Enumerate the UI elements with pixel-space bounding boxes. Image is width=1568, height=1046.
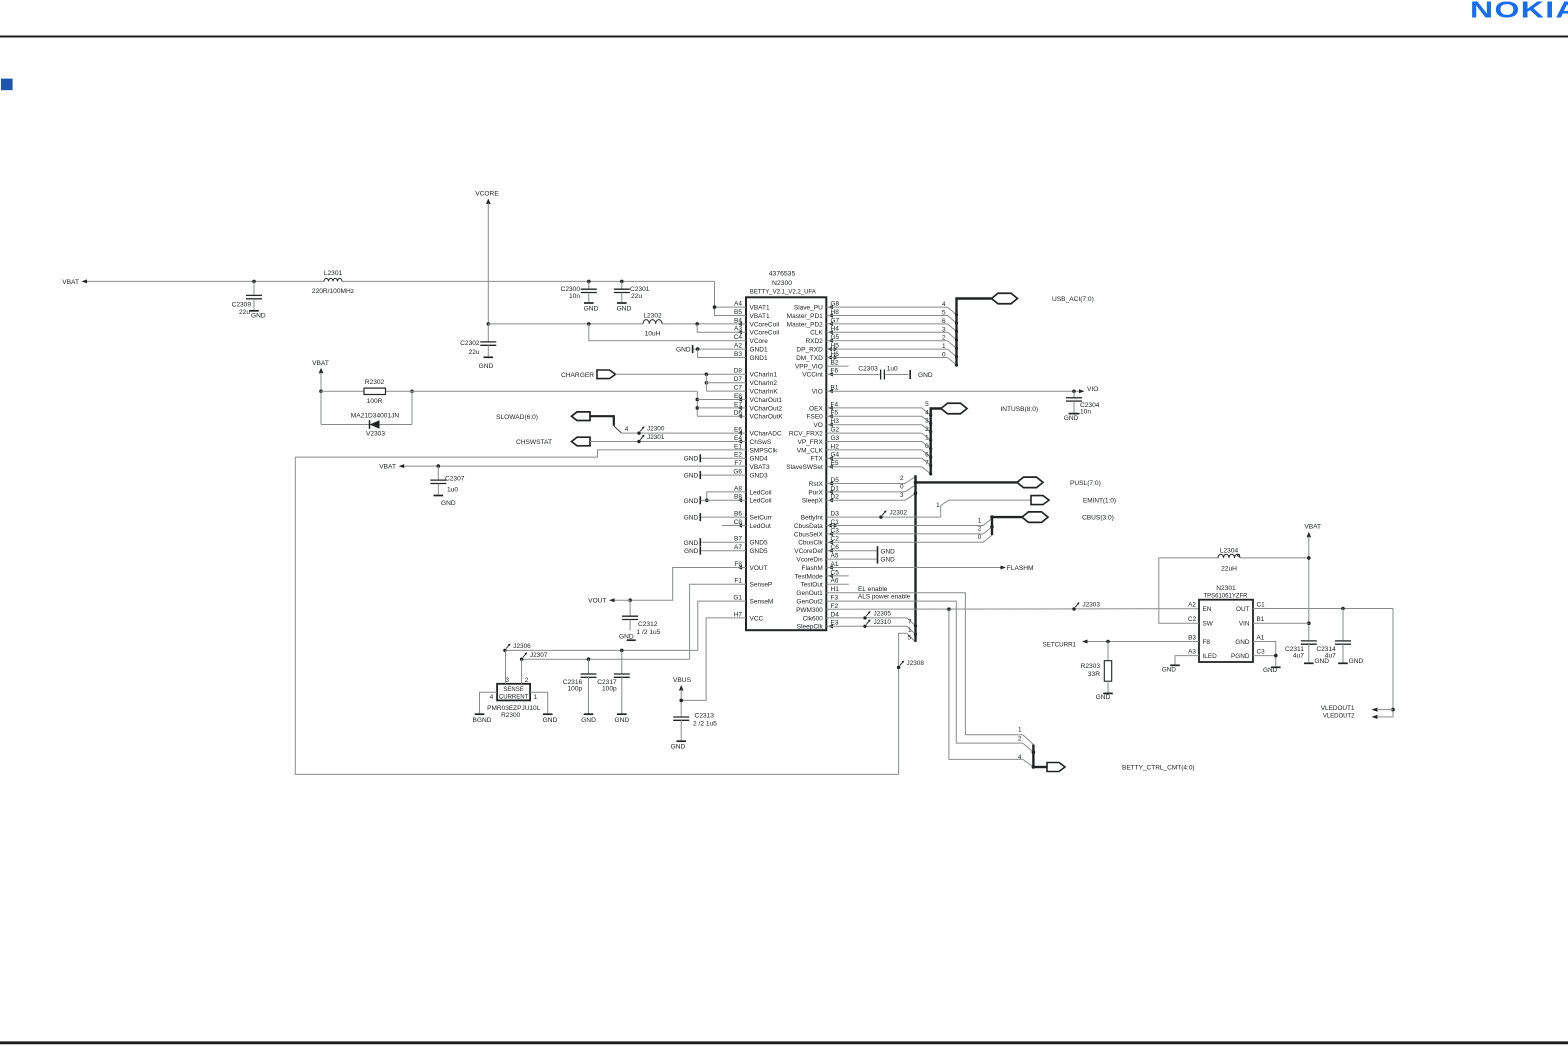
wire SW to L2304 <box>1159 558 1199 623</box>
svg-text:USB_ACI(7:0): USB_ACI(7:0) <box>1052 296 1094 303</box>
svg-text:GND: GND <box>684 515 699 522</box>
svg-text:GND: GND <box>1349 658 1364 665</box>
wire SenseM to J2306 line <box>698 601 746 650</box>
svg-text:VCharADC: VCharADC <box>750 431 782 438</box>
svg-text:VCharInK: VCharInK <box>750 389 779 396</box>
IC N2300 BETTY_V2.1_V2.2_UFA <box>733 271 839 631</box>
svg-text:TestMode: TestMode <box>795 573 824 580</box>
svg-text:1 /2 1u5: 1 /2 1u5 <box>637 629 661 636</box>
svg-text:GND4: GND4 <box>750 456 768 463</box>
svg-text:C2302: C2302 <box>460 340 480 347</box>
ground at VCoreDef C6 <box>826 546 895 555</box>
ground at SetCurr pin B6 <box>684 513 746 522</box>
svg-text:VPP_VIO: VPP_VIO <box>795 363 823 370</box>
svg-text:J2306: J2306 <box>513 643 531 650</box>
svg-text:A5: A5 <box>831 553 839 560</box>
net SETCURR1 <box>1043 640 1199 649</box>
capacitor C2307 <box>430 466 464 507</box>
svg-text:10n: 10n <box>569 293 580 300</box>
svg-text:4376535: 4376535 <box>769 271 796 278</box>
capacitor C2313 <box>671 713 717 751</box>
svg-text:FTX: FTX <box>811 456 824 463</box>
ground at GND5 pin A7 <box>684 547 746 556</box>
svg-text:BETTY_CTRL_CMT(4:0): BETTY_CTRL_CMT(4:0) <box>1122 765 1195 772</box>
svg-text:B5: B5 <box>734 309 742 316</box>
svg-text:C3: C3 <box>1257 649 1266 656</box>
svg-text:OUT: OUT <box>1236 606 1250 613</box>
svg-text:G2: G2 <box>831 427 840 434</box>
svg-text:B3: B3 <box>1188 635 1196 642</box>
capacitor C2309 <box>232 281 266 319</box>
net flag CHSWSTAT <box>516 437 746 446</box>
svg-text:GND: GND <box>881 557 896 564</box>
svg-text:6: 6 <box>942 318 946 325</box>
wire VCC to VBUS <box>681 618 746 701</box>
ground at R2300 pin 1 <box>543 714 558 724</box>
svg-text:SMPSClk: SMPSClk <box>750 447 779 454</box>
svg-text:CHSWSTAT: CHSWSTAT <box>516 439 552 446</box>
svg-text:L2302: L2302 <box>643 312 662 319</box>
wire J2306 sense line <box>505 649 698 653</box>
capacitor C2300 <box>561 280 599 313</box>
svg-text:VcoreDis: VcoreDis <box>796 557 823 564</box>
svg-text:GND: GND <box>1096 694 1111 701</box>
svg-text:EN: EN <box>1203 606 1212 613</box>
svg-text:L2304: L2304 <box>1220 547 1239 554</box>
svg-text:L2301: L2301 <box>324 270 343 277</box>
svg-text:B2: B2 <box>831 359 839 366</box>
svg-text:VCoreCoil: VCoreCoil <box>750 330 780 337</box>
svg-text:7: 7 <box>925 460 929 467</box>
svg-text:0: 0 <box>942 352 946 359</box>
net VOUT <box>588 568 746 605</box>
svg-text:2: 2 <box>525 677 529 684</box>
jumper J2303 <box>1072 602 1100 611</box>
svg-text:G3: G3 <box>831 435 840 442</box>
svg-text:E1: E1 <box>734 443 742 450</box>
svg-text:2: 2 <box>925 426 929 433</box>
inductor L2301 <box>312 270 354 295</box>
svg-text:F3: F3 <box>831 595 839 602</box>
ground at R2303 <box>1096 693 1113 701</box>
jumper J2307 <box>520 652 548 661</box>
svg-text:Master_PD1: Master_PD1 <box>787 313 824 320</box>
svg-text:Master_PD2: Master_PD2 <box>787 321 824 328</box>
net VIO <box>826 386 1098 393</box>
svg-text:VBUS: VBUS <box>673 677 692 684</box>
svg-text:CbusData: CbusData <box>794 523 823 530</box>
svg-text:J2302: J2302 <box>890 510 908 517</box>
wire Clk600 D4 to bus tick 7 <box>826 618 917 628</box>
svg-text:VCharOut1: VCharOut1 <box>750 397 783 404</box>
svg-text:DP_RXD: DP_RXD <box>796 347 823 354</box>
svg-text:R2302: R2302 <box>365 379 385 386</box>
bus BETTY_CTRL_CMT(4:0) <box>1032 745 1195 772</box>
svg-text:3: 3 <box>900 492 904 499</box>
svg-text:C7: C7 <box>734 385 743 392</box>
svg-text:MA21D34001JN: MA21D34001JN <box>351 413 400 420</box>
jumper J2301 <box>637 434 665 443</box>
svg-text:CURRENT: CURRENT <box>499 695 529 701</box>
svg-text:1u0: 1u0 <box>887 366 898 373</box>
svg-text:C2307: C2307 <box>445 475 465 482</box>
svg-text:GND: GND <box>918 372 933 379</box>
svg-text:CbusSelX: CbusSelX <box>794 531 824 538</box>
capacitor C2314 <box>1316 609 1363 666</box>
IC N2301 TPS61061YZFR <box>1188 585 1265 662</box>
svg-text:CLK: CLK <box>810 330 823 337</box>
svg-text:GND: GND <box>684 498 699 505</box>
svg-text:5: 5 <box>942 310 946 317</box>
capacitor C2304 <box>1064 391 1100 422</box>
svg-text:VBAT: VBAT <box>62 279 79 286</box>
resistor R2302 <box>364 379 386 405</box>
bus CBUS(3:0) <box>826 512 1114 542</box>
wire VCharOut rows from R2302 <box>696 391 747 416</box>
svg-text:LedCoil: LedCoil <box>750 489 773 496</box>
jumper J2308 <box>897 660 924 669</box>
svg-text:GND: GND <box>441 500 456 507</box>
svg-text:VBAT1: VBAT1 <box>750 313 770 320</box>
svg-text:3: 3 <box>506 677 510 684</box>
svg-text:GND: GND <box>684 548 699 555</box>
svg-text:VCORE: VCORE <box>475 190 499 197</box>
svg-text:N2300: N2300 <box>772 280 792 287</box>
svg-text:GND1: GND1 <box>750 347 768 354</box>
svg-text:4: 4 <box>942 301 946 308</box>
svg-text:VCoreCoil: VCoreCoil <box>750 321 780 328</box>
svg-text:4: 4 <box>625 426 629 433</box>
capacitor C2317 <box>597 650 630 723</box>
svg-text:GenOut1: GenOut1 <box>796 590 823 597</box>
svg-text:A7: A7 <box>734 544 742 551</box>
svg-text:VP_FRX: VP_FRX <box>798 439 824 446</box>
svg-text:100p: 100p <box>568 686 583 693</box>
wire VCore rail to IC <box>488 322 746 341</box>
svg-text:GND5: GND5 <box>750 548 768 555</box>
svg-text:SLOWAD(6:0): SLOWAD(6:0) <box>496 414 538 421</box>
svg-text:4u7: 4u7 <box>1293 653 1304 660</box>
svg-text:VO: VO <box>813 422 822 429</box>
svg-text:C2312: C2312 <box>638 621 658 628</box>
svg-text:VIO: VIO <box>1087 386 1098 393</box>
svg-text:GenOut2: GenOut2 <box>796 599 823 606</box>
svg-text:GND: GND <box>543 717 558 724</box>
svg-text:VCharIn2: VCharIn2 <box>750 380 778 387</box>
svg-text:2 /2 1u5: 2 /2 1u5 <box>693 720 717 727</box>
svg-text:33R: 33R <box>1088 671 1100 678</box>
svg-text:V2303: V2303 <box>366 431 385 438</box>
svg-text:SlaveSWSet: SlaveSWSet <box>786 464 823 471</box>
ground at GND PGND pins <box>1253 642 1281 675</box>
svg-text:VIN: VIN <box>1239 621 1250 628</box>
wire SMPSClk loop to PUSL bus tick 5 <box>295 450 915 775</box>
svg-text:BettyInt: BettyInt <box>801 515 823 522</box>
svg-text:1: 1 <box>942 343 946 350</box>
svg-text:GND: GND <box>617 305 632 312</box>
svg-text:BGND: BGND <box>472 717 491 724</box>
capacitor C2301 <box>614 280 650 313</box>
svg-text:10uH: 10uH <box>645 331 661 338</box>
svg-text:2: 2 <box>1018 735 1022 742</box>
svg-text:A3: A3 <box>1188 649 1196 656</box>
svg-text:LedCoil: LedCoil <box>750 498 773 505</box>
capacitor C2311 <box>1285 641 1329 665</box>
svg-text:B1: B1 <box>1257 616 1265 623</box>
svg-text:VCharOutK: VCharOutK <box>750 414 784 421</box>
ground at GND4 pin E2 <box>684 454 746 462</box>
capacitor C2303 on VCCint <box>826 366 908 380</box>
svg-text:J2301: J2301 <box>647 434 665 441</box>
svg-text:0: 0 <box>900 483 904 490</box>
svg-text:GND: GND <box>479 363 494 370</box>
section marker square <box>1 79 13 91</box>
wire J2307 sense line <box>522 657 690 661</box>
ground at GND3 pin G6 <box>684 471 746 479</box>
jumper J2302 <box>879 510 907 519</box>
svg-text:J2307: J2307 <box>530 652 548 659</box>
svg-text:VCore: VCore <box>750 338 769 345</box>
svg-text:C2303: C2303 <box>858 366 878 373</box>
svg-text:D4: D4 <box>831 611 840 618</box>
net VBAT top rail <box>62 279 746 316</box>
svg-text:GND: GND <box>1235 639 1250 646</box>
svg-text:H7: H7 <box>734 611 743 618</box>
current sense resistor R2300 PMR03EZPJU10L <box>480 650 548 719</box>
ground at R2300 pin 4 <box>472 714 491 724</box>
svg-text:VCharIn1: VCharIn1 <box>750 372 778 379</box>
svg-text:C2: C2 <box>1188 616 1197 623</box>
svg-text:A2: A2 <box>734 343 742 350</box>
svg-text:D8: D8 <box>734 368 743 375</box>
svg-text:Slave_PU: Slave_PU <box>794 305 823 312</box>
net VBAT at VBAT3 pin <box>379 464 746 471</box>
capacitor C2316 <box>563 659 597 724</box>
svg-text:VOUT: VOUT <box>588 597 606 604</box>
svg-text:1: 1 <box>534 694 538 701</box>
inductor L2302 <box>643 312 662 337</box>
svg-text:VBAT: VBAT <box>1304 524 1321 531</box>
ground at LedCoil pin B8 <box>684 496 746 505</box>
bus USB_ACI(7:0) <box>826 293 1093 366</box>
svg-text:3: 3 <box>925 418 929 425</box>
svg-text:GND: GND <box>584 305 599 312</box>
svg-text:D3: D3 <box>831 511 840 518</box>
svg-text:VBAT3: VBAT3 <box>750 464 770 471</box>
svg-text:GND: GND <box>251 313 266 320</box>
svg-text:7: 7 <box>908 618 912 625</box>
svg-text:FSE0: FSE0 <box>807 414 824 421</box>
svg-text:TPS61061YZFR: TPS61061YZFR <box>1203 593 1248 599</box>
svg-text:FlashM: FlashM <box>801 565 822 572</box>
svg-text:2: 2 <box>978 526 982 533</box>
svg-text:CBUS(3:0): CBUS(3:0) <box>1082 515 1114 522</box>
Nokia logo <box>1470 0 1568 23</box>
svg-text:0: 0 <box>978 534 982 541</box>
wire TestOut stub A6 <box>826 583 849 585</box>
svg-text:VCoreDef: VCoreDef <box>794 548 823 555</box>
svg-text:INTUSB(8:0): INTUSB(8:0) <box>1000 406 1038 413</box>
svg-text:VLEDOUT1: VLEDOUT1 <box>1321 705 1355 712</box>
svg-text:CHARGER: CHARGER <box>561 372 594 379</box>
svg-text:GND5: GND5 <box>750 540 768 547</box>
svg-text:PurX: PurX <box>808 489 823 496</box>
ground at ILED pin A3 <box>1162 656 1199 674</box>
jumper J2310 <box>863 619 891 628</box>
svg-text:R2303: R2303 <box>1081 663 1101 670</box>
svg-text:RCV_FRX2: RCV_FRX2 <box>789 431 823 438</box>
svg-text:OEX: OEX <box>809 405 823 412</box>
svg-text:PUSL(7:0): PUSL(7:0) <box>1070 480 1101 487</box>
svg-text:22uH: 22uH <box>1221 565 1237 572</box>
svg-text:R2300: R2300 <box>501 712 521 719</box>
wire LedOut stub C8 <box>722 525 746 527</box>
svg-text:6: 6 <box>925 451 929 458</box>
ground at GND1 pins A2 B3 <box>676 345 746 357</box>
svg-text:H2: H2 <box>831 443 840 450</box>
net VCORE <box>475 190 499 325</box>
svg-text:SleepX: SleepX <box>802 498 824 505</box>
wire VPP_VIO stub B2 <box>826 365 848 367</box>
bus PUSL(7:0) <box>826 475 1100 642</box>
svg-text:C2313: C2313 <box>695 713 715 720</box>
wire SenseP to J2307 line <box>690 584 746 659</box>
svg-text:H1: H1 <box>831 586 840 593</box>
svg-text:5: 5 <box>907 635 911 642</box>
svg-text:100R: 100R <box>367 398 383 405</box>
svg-text:C2301: C2301 <box>630 286 650 293</box>
svg-text:1: 1 <box>908 627 912 634</box>
net VBUS <box>673 677 692 716</box>
svg-text:VCCint: VCCint <box>802 372 823 379</box>
wire SleepClk E3 to bus tick 1 <box>826 626 917 636</box>
svg-text:B6: B6 <box>734 511 742 518</box>
net ALS power enable from GenOut2 <box>826 594 1033 753</box>
svg-text:0: 0 <box>925 443 929 450</box>
net VBAT at LED driver <box>1304 524 1321 641</box>
svg-text:GND: GND <box>684 456 699 463</box>
svg-text:A1: A1 <box>1257 635 1265 642</box>
svg-text:1u0: 1u0 <box>447 487 458 494</box>
svg-text:DM_TXD: DM_TXD <box>796 355 823 362</box>
svg-text:4: 4 <box>925 409 929 416</box>
svg-text:GND: GND <box>881 548 896 555</box>
svg-text:1: 1 <box>925 435 929 442</box>
svg-text:FLASHM: FLASHM <box>1007 565 1034 572</box>
svg-text:NOKIA: NOKIA <box>1470 0 1568 23</box>
svg-text:PGND: PGND <box>1231 653 1250 660</box>
ground at VcoreDis A5 <box>826 555 895 564</box>
svg-text:BETTY_V2.1_V2.2_UFA: BETTY_V2.1_V2.2_UFA <box>750 289 816 296</box>
svg-text:A8: A8 <box>734 485 742 492</box>
ground at C2303 <box>910 370 933 379</box>
svg-text:3: 3 <box>942 326 946 333</box>
capacitor C2302 <box>460 324 496 370</box>
svg-text:J2310: J2310 <box>874 619 892 626</box>
svg-text:E2: E2 <box>734 452 742 459</box>
svg-text:SetCurr: SetCurr <box>750 515 773 522</box>
svg-text:G6: G6 <box>733 469 742 476</box>
svg-text:RXD2: RXD2 <box>805 338 823 345</box>
inductor L2304 <box>1159 547 1309 572</box>
svg-text:VIO: VIO <box>812 389 823 396</box>
svg-text:22u: 22u <box>469 349 480 356</box>
svg-text:SenseM: SenseM <box>750 599 774 606</box>
svg-text:GND: GND <box>1162 666 1177 673</box>
svg-text:PMR03EZPJU10L: PMR03EZPJU10L <box>487 705 540 712</box>
svg-text:F8: F8 <box>1203 639 1211 646</box>
svg-text:GND: GND <box>684 473 699 480</box>
svg-text:PWM300: PWM300 <box>796 607 823 614</box>
svg-text:B3: B3 <box>734 351 742 358</box>
svg-text:220R/100MHz: 220R/100MHz <box>312 288 354 295</box>
svg-text:D7: D7 <box>734 376 743 383</box>
svg-text:1: 1 <box>978 517 982 524</box>
svg-text:4: 4 <box>490 694 494 701</box>
svg-text:22u: 22u <box>239 309 250 316</box>
svg-text:C4: C4 <box>734 334 743 341</box>
svg-text:GND: GND <box>684 540 699 547</box>
svg-text:F1: F1 <box>734 578 742 585</box>
svg-text:VM_CLK: VM_CLK <box>797 447 824 454</box>
svg-text:GND: GND <box>1263 667 1278 674</box>
jumper J2300 <box>637 426 665 435</box>
svg-text:VBAT: VBAT <box>312 360 329 367</box>
capacitor C2312 <box>619 600 661 640</box>
jumper J2305 <box>863 611 891 620</box>
net flag CHARGER <box>561 370 746 391</box>
svg-text:4: 4 <box>1018 754 1022 761</box>
svg-text:SenseP: SenseP <box>750 582 773 589</box>
svg-text:G1: G1 <box>733 595 742 602</box>
svg-text:SETCURR1: SETCURR1 <box>1043 642 1077 649</box>
svg-text:LedOut: LedOut <box>750 523 772 530</box>
svg-text:2: 2 <box>900 475 904 482</box>
svg-text:VBAT1: VBAT1 <box>750 305 770 312</box>
diode V2303 <box>321 391 412 437</box>
svg-text:1: 1 <box>936 502 940 509</box>
svg-text:N2301: N2301 <box>1216 585 1236 592</box>
svg-text:C1: C1 <box>1257 602 1266 609</box>
svg-text:CbusClk: CbusClk <box>798 540 823 547</box>
jumper J2306 <box>503 643 531 652</box>
svg-text:EL enable: EL enable <box>858 586 888 593</box>
svg-text:TestOut: TestOut <box>800 582 823 589</box>
svg-text:10n: 10n <box>1080 408 1091 415</box>
svg-text:GND: GND <box>581 717 596 724</box>
svg-text:VCC: VCC <box>750 615 764 622</box>
svg-text:B7: B7 <box>734 536 742 543</box>
net PWM300 to J2303 and bus <box>826 607 1199 767</box>
svg-text:A2: A2 <box>1188 602 1196 609</box>
svg-text:ILED: ILED <box>1203 653 1218 660</box>
svg-text:SleepClk: SleepClk <box>797 624 824 631</box>
svg-text:A4: A4 <box>734 301 742 308</box>
resistor R2303 <box>1081 642 1112 693</box>
svg-text:A6: A6 <box>831 578 839 585</box>
net OUT to VLEDOUT <box>1253 607 1395 720</box>
net FLASHM <box>826 565 1033 572</box>
svg-text:22u: 22u <box>631 293 642 300</box>
svg-text:GND3: GND3 <box>750 473 768 480</box>
wire TestMode stub C5 <box>826 575 849 577</box>
svg-text:SW: SW <box>1203 621 1214 628</box>
net flag SLOWAD(6:0) <box>496 412 746 433</box>
svg-text:RstX: RstX <box>809 481 824 488</box>
svg-text:ALS power enable: ALS power enable <box>858 594 911 601</box>
svg-text:2: 2 <box>942 335 946 342</box>
net EL enable from GenOut1 <box>826 586 1033 745</box>
